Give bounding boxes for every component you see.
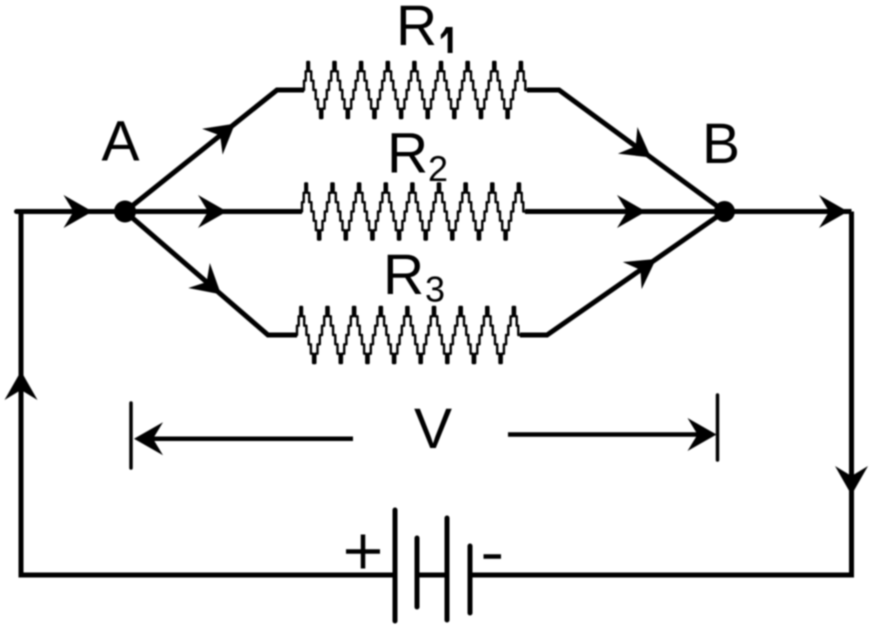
wire R3 to diagonal B [520, 212, 725, 336]
battery minus sign [484, 554, 502, 559]
current arrow R2 to B [617, 195, 646, 228]
current arrow R3 to B [623, 245, 666, 289]
voltage dimension right arrow [688, 418, 717, 451]
current arrow A to R3 [188, 263, 232, 307]
wire left vertical [19, 212, 24, 578]
wire right vertical [849, 212, 854, 576]
voltage dimension left arrow [134, 422, 163, 455]
battery plate long 2 [445, 518, 450, 620]
current arrow on left entry wire [64, 195, 93, 228]
svg-text:3: 3 [425, 269, 445, 310]
current arrow A to R1 [202, 111, 245, 155]
wire bottom left [19, 573, 394, 578]
svg-text:R: R [396, 0, 437, 58]
current arrow left vertical up [5, 371, 38, 400]
wire diagonal A to R3 [125, 212, 297, 336]
svg-text:2: 2 [428, 148, 448, 189]
battery plus sign [346, 535, 380, 569]
voltage dimension right line [508, 432, 700, 437]
wire R2 to node B [525, 209, 725, 214]
resistor R3 [297, 307, 520, 363]
label R1 subscript [441, 27, 453, 53]
svg-text:V: V [414, 397, 452, 461]
wire node A to R2 [125, 209, 302, 214]
wire R1 to diagonal B [527, 90, 725, 212]
voltage dimension left bar [129, 403, 133, 468]
wire bottom right [472, 573, 854, 578]
voltage dimension left line [150, 436, 353, 441]
battery plate short negative [468, 546, 473, 613]
current arrow B to corner [819, 195, 848, 228]
resistor R2 [302, 184, 525, 240]
svg-text:A: A [102, 110, 140, 174]
node A [114, 201, 136, 223]
resistor R1 [304, 62, 527, 118]
current arrow right vertical down [835, 466, 868, 495]
current arrow R1 to B [618, 127, 661, 171]
battery plate long positive [393, 510, 398, 621]
svg-text:B: B [702, 112, 740, 176]
current arrow A to R2 [198, 195, 227, 228]
wire node B to right corner [725, 209, 852, 214]
wire left entry [17, 209, 126, 214]
svg-text:R: R [383, 243, 424, 307]
battery plate short 1 [415, 538, 420, 607]
battery inner connector wire [417, 573, 447, 578]
wire diagonal A to R1 [125, 90, 304, 212]
node B [714, 201, 735, 222]
svg-text:R: R [387, 122, 428, 186]
voltage dimension right bar [716, 395, 720, 460]
